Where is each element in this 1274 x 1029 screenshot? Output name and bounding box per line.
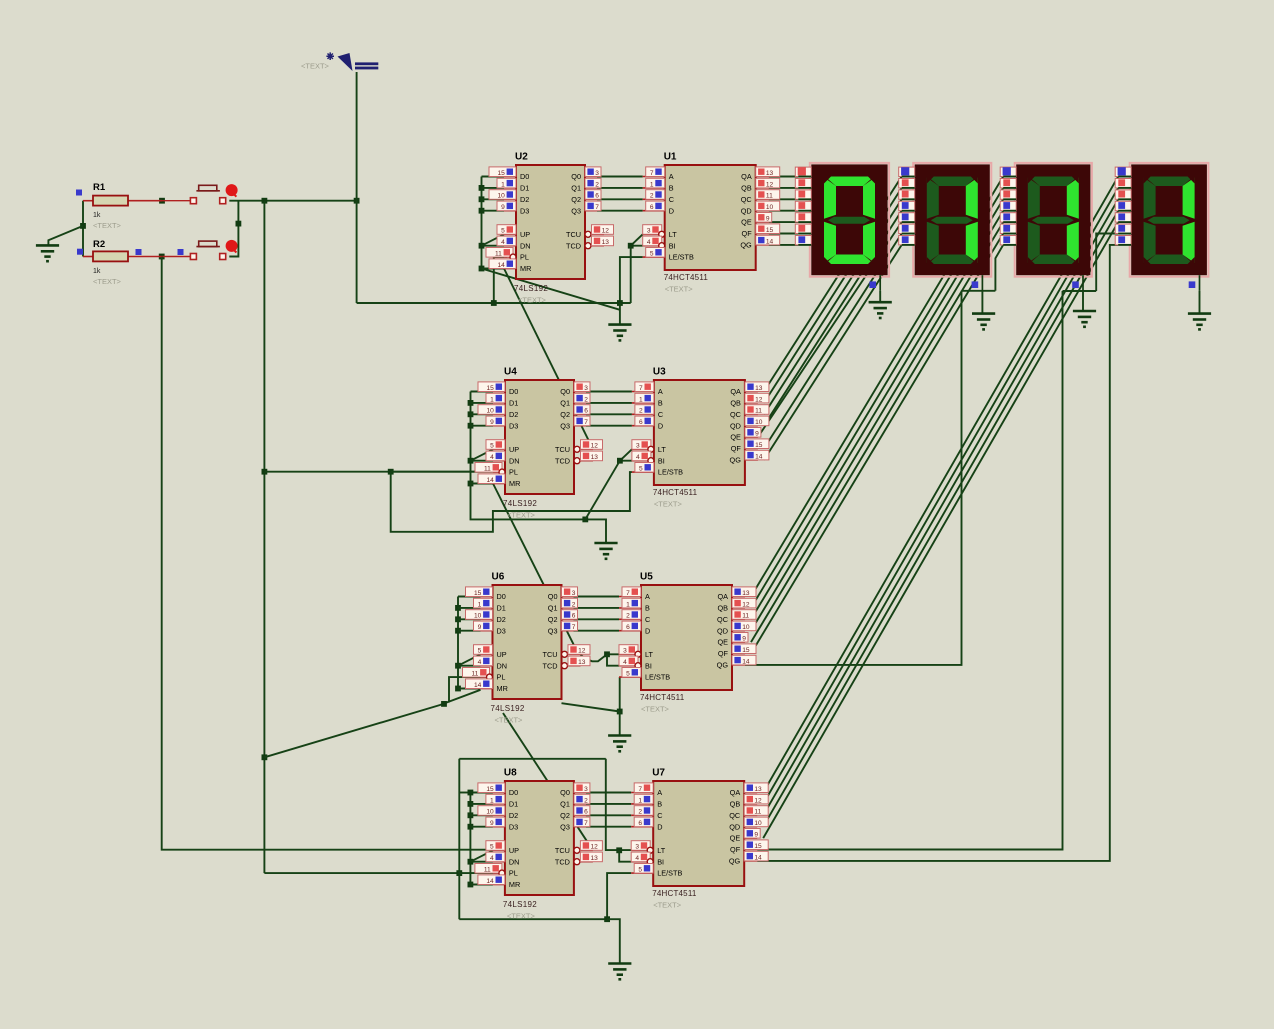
svg-text:PL: PL [520,253,529,262]
wire row1 bus to D1 [482,187,505,189]
junction on R1 row [159,198,165,204]
state square on R2 wire (2) [178,249,184,255]
svg-text:12: 12 [591,844,599,851]
svg-text:4: 4 [623,659,627,666]
wire U6 TCU to U5 LT [581,654,620,661]
ground (row4, bottom) [608,964,631,980]
wire row3 Q0 to decoder input [574,596,620,598]
svg-text:QD: QD [729,822,740,831]
svg-text:9: 9 [755,431,759,438]
svg-text:LT: LT [669,230,678,239]
wire DS2 ground stem [981,291,983,314]
svg-text:Q2: Q2 [560,410,570,419]
ground (under DS3) [1073,311,1096,327]
segment pin d [1000,201,1016,210]
svg-text:12: 12 [602,228,610,235]
wire U5 QG riser to DS2 node [745,291,962,665]
svg-text:4: 4 [478,659,482,666]
wire row1 bus to D3 [482,210,505,212]
svg-text:12: 12 [742,601,750,608]
junction on SW1-SW2 link [236,221,242,227]
svg-text:2: 2 [584,797,588,804]
wire U2 PL to power net [494,257,507,303]
svg-text:QF: QF [742,229,753,238]
wire rail2 (buttons to PL net) vertical [263,201,265,873]
wire row2 bus to D1 [471,402,494,404]
wire U1 LE to power net [620,257,643,303]
wire row2 Q2 to decoder input [586,413,632,415]
svg-text:QE: QE [730,433,741,442]
svg-text:B: B [658,399,663,408]
svg-text:1: 1 [490,797,494,804]
svg-text:A: A [658,387,663,396]
segment pin g [1115,236,1131,245]
svg-text:Q2: Q2 [548,615,558,624]
svg-text:15: 15 [486,385,494,392]
pin TCU (pin number 12) of U8 [574,847,580,853]
svg-text:4: 4 [636,454,640,461]
wire U8 D0 row to loop edge [459,792,470,794]
junction row2 bus D2 [468,411,474,417]
segment pin d [1115,201,1131,210]
junction row2 PL branch [388,469,394,475]
svg-text:13: 13 [755,385,763,392]
segment pin e [1000,213,1016,222]
ground (row1, under U1) [608,325,631,341]
svg-text:QA: QA [730,387,741,396]
pin LT (pin number 3) of U1 [643,233,659,235]
wire rail2 diagonal to U6 MR [264,690,480,758]
junction power net at U2 PL [491,300,497,306]
segment pin a [899,167,915,176]
svg-text:A: A [657,788,662,797]
wire row4 bus to DN pin [470,861,493,863]
wire U1 LT/BI junction [631,234,643,245]
svg-text:LE/STB: LE/STB [669,253,694,262]
svg-text:D0: D0 [520,172,529,181]
svg-text:11: 11 [755,408,762,415]
wire U5 Q1 diagonal to DS3 [751,188,1003,608]
svg-text:5: 5 [490,443,494,450]
pin TCD (pin number 13) of U4 [574,458,580,464]
svg-text:11: 11 [484,466,491,473]
svg-text:MR: MR [509,880,520,889]
segment pin e [1115,213,1131,222]
svg-text:QF: QF [731,444,742,453]
svg-text:TCU: TCU [543,650,558,659]
svg-text:14: 14 [486,477,494,484]
svg-text:6: 6 [650,204,654,211]
svg-text:15: 15 [497,170,505,177]
wire ground stem row1 [619,303,621,325]
wire row4 Q3 to decoder input [586,826,631,828]
wire row3 Q1 to decoder input [574,607,620,609]
cathode pin of 7-segment display DS2 (digit 1) [972,275,983,291]
pin BI (pin number 4) of U1 [643,245,659,247]
svg-text:D1: D1 [520,184,529,193]
pin LT (pin number 3) of U5 [619,653,635,655]
pin UP (pin number 5) of U6 [481,653,493,655]
segment pin b [1115,179,1131,188]
svg-text:MR: MR [509,479,520,488]
pin QG (pin number 14) of U1 [756,244,769,246]
wire DS1 cathode to ground [879,291,881,302]
pin QE (pin number 9) of U5 [732,641,745,643]
svg-text:6: 6 [584,809,588,816]
junction row3 ground node [617,709,623,715]
segment pin d [899,201,915,210]
7-segment display DS4 (digit 1) [1130,163,1209,277]
pin D1 (pin number 1) of U8 [493,803,505,805]
wire row2 Q1 to decoder input [586,402,632,404]
svg-text:74HCT4511: 74HCT4511 [664,273,709,282]
input pins of 7-segment display DS1 (digit 0) [795,167,811,245]
svg-text:D0: D0 [497,592,506,601]
pin QA (pin number 13) of U1 [756,176,769,178]
pin D (pin number 6) of U3 [632,425,654,427]
pin PL (pin number 11) of U4 [493,471,499,473]
BCD decoder U1 (74HCT4511) [643,152,780,283]
wire U5 Q4 diagonal to DS3 [751,222,1003,642]
svg-text:<TEXT>: <TEXT> [653,901,682,910]
svg-text:12: 12 [754,797,762,804]
svg-text:TCU: TCU [555,846,570,855]
segment pin f [899,224,915,233]
pin Q0 (pin number 3) of U6 [562,596,574,598]
pin TCU (pin number 12) of U4 [574,446,580,452]
pin QF (pin number 15) of U1 [756,233,769,235]
resistor R2 [83,239,162,275]
svg-text:12: 12 [578,648,586,655]
wire U1 Q0 to DS1 [769,176,799,178]
junction loop bottom at LE drop [604,916,610,922]
svg-text:TCD: TCD [543,661,558,670]
pin LT (pin number 3) of U3 [632,448,648,450]
svg-text:BI: BI [645,661,652,670]
svg-text:U7: U7 [652,768,665,779]
svg-text:13: 13 [754,786,762,793]
svg-text:D: D [658,421,663,430]
ground (under DS2) [972,314,995,330]
wire U1 Q3 to DS1 [769,210,799,212]
svg-text:LT: LT [658,445,667,454]
svg-text:A: A [669,172,674,181]
wire row1 Q3 to decoder input [597,210,643,212]
pin DN (pin number 4) of U4 [493,460,505,462]
wire U7 Q0 diagonal to DS4 [763,177,1118,793]
wire row2 Q0 to decoder input [586,391,632,393]
svg-text:BI: BI [669,241,676,250]
svg-text:QB: QB [730,399,741,408]
pin B (pin number 1) of U5 [619,607,641,609]
wire U1 Q5 to DS1 [769,233,799,235]
pin D2 (pin number 10) of U8 [493,814,505,816]
pushbutton SW1 (count up) [190,184,237,204]
svg-text:Q0: Q0 [560,387,570,396]
wire row1 Q0 to decoder input [597,176,643,178]
svg-text:15: 15 [766,227,774,234]
pushbutton SW2 (count down) [190,240,237,260]
svg-text:13: 13 [602,239,610,246]
junction U3 BI [617,458,623,464]
pin UP (pin number 5) of U2 [504,233,516,235]
junction row2 bus MR [468,481,474,487]
svg-text:Q1: Q1 [560,800,570,809]
pin QG (pin number 14) of U5 [732,664,745,666]
junction U7 LT node [616,847,622,853]
wire U3 Q1 diagonal to DS2 [764,188,902,403]
wire U3 Q3 diagonal to DS2 [764,211,902,426]
svg-text:12: 12 [766,181,774,188]
pin LT (pin number 3) of U7 [631,849,647,851]
junction row4 bus D2 [468,812,474,818]
7-segment display DS2 (digit 1) [913,163,991,277]
svg-text:LE/STB: LE/STB [657,869,682,878]
wire R2 to button SW2 [162,256,191,258]
svg-text:14: 14 [766,238,774,245]
pin QD (pin number 10) of U5 [732,630,745,632]
svg-text:10: 10 [486,809,494,816]
pin Q1 (pin number 2) of U8 [574,803,586,805]
wire U7 QG riser to DS4 pin g [757,245,1118,861]
svg-text:10: 10 [497,193,505,200]
svg-text:Q2: Q2 [571,195,581,204]
wire U4 bus extension down [471,484,607,544]
pin QC (pin number 11) of U1 [756,198,769,200]
pin D3 (pin number 9) of U6 [481,630,493,632]
svg-text:4: 4 [501,239,505,246]
wire DS2 node to DS3 pin g [995,245,1003,291]
svg-text:11: 11 [766,193,773,200]
counter U2 (74LS192 up/down counter) [486,152,614,294]
pin LE/STB (pin number 5) of U5 [619,676,641,678]
pin Q1 (pin number 2) of U2 [585,187,597,189]
junction row4 bus D1 [468,801,474,807]
segment pin c [1115,190,1131,199]
svg-text:10: 10 [754,820,762,827]
pin Q2 (pin number 6) of U8 [574,814,586,816]
svg-text:U6: U6 [492,572,505,583]
svg-text:1: 1 [490,396,494,403]
svg-text:PL: PL [497,673,506,682]
junction row1 bus MR [479,266,485,272]
svg-text:7: 7 [638,786,642,793]
wire cascade diagonal U4.MR to U6.TCU [493,484,579,655]
svg-text:14: 14 [754,854,762,861]
wire row1 bus to MR pin [482,268,505,270]
svg-text:1: 1 [501,181,505,188]
svg-text:<TEXT>: <TEXT> [507,912,536,921]
wire rail2 bottom to U8 PL row [264,872,459,874]
junction rail2 at row3 branch [262,754,268,760]
input pins of 7-segment display DS3 (digit 1) [1000,167,1016,245]
svg-text:QG: QG [730,456,742,465]
svg-text:QC: QC [717,615,728,624]
pin B (pin number 1) of U7 [631,803,653,805]
wire U6 PL drop to rail2 diagonal [449,677,487,702]
svg-text:DN: DN [497,661,508,670]
svg-text:UP: UP [509,445,519,454]
svg-text:Q0: Q0 [560,788,570,797]
pin D (pin number 6) of U5 [619,630,641,632]
pin QB (pin number 12) of U1 [756,187,769,189]
resistor R1 [83,182,162,219]
svg-text:2: 2 [639,408,643,415]
junction power rail at button row [354,198,360,204]
svg-text:QB: QB [730,800,741,809]
svg-text:13: 13 [591,855,599,862]
input pins of 7-segment display DS4 (digit 1) [1115,167,1131,245]
svg-text:13: 13 [766,170,774,177]
wire U3 Q6 diagonal to DS2 [764,245,902,460]
svg-text:74LS192: 74LS192 [514,284,548,293]
pin Q2 (pin number 6) of U2 [585,198,597,200]
svg-text:3: 3 [636,443,640,450]
pin D2 (pin number 10) of U4 [493,413,505,415]
svg-text:13: 13 [742,590,750,597]
pin UP (pin number 5) of U8 [493,849,505,851]
svg-text:QE: QE [741,218,752,227]
svg-text:1k: 1k [93,212,101,219]
svg-text:B: B [645,604,650,613]
svg-text:D3: D3 [497,626,506,635]
svg-text:DN: DN [509,857,520,866]
svg-text:D2: D2 [520,195,529,204]
wire DS2 cathode node [981,290,983,292]
junction row1 bus D2 [479,196,485,202]
wire U3 Q0 diagonal to DS2 [764,177,902,392]
svg-text:DN: DN [509,456,520,465]
wire row3 Q3 to decoder input [574,630,620,632]
wire SW1 to SW2 link vertical [229,201,238,257]
svg-text:12: 12 [591,443,599,450]
wire row4 Q2 to decoder input [586,814,631,816]
pin QD (pin number 10) of U7 [744,826,757,828]
svg-text:D0: D0 [509,788,518,797]
pin C (pin number 2) of U3 [632,413,654,415]
wire row3 Q2 to decoder input [574,618,620,620]
svg-text:D2: D2 [509,410,518,419]
svg-text:4: 4 [490,454,494,461]
pin TCD (pin number 13) of U6 [562,663,568,669]
segment pin f [1115,224,1131,233]
svg-text:15: 15 [486,786,494,793]
svg-text:3: 3 [647,228,651,235]
wire rail2 to U4 PL [264,471,501,473]
svg-text:D: D [645,626,650,635]
svg-text:Q0: Q0 [571,172,581,181]
svg-text:QE: QE [717,638,728,647]
svg-text:7: 7 [595,204,599,211]
pin MR (pin number 14) of U4 [493,483,505,485]
junction U8 bus top [468,790,474,796]
cathode pin of 7-segment display DS1 (digit 0) [869,275,880,291]
wire row3 bus to D3 [458,630,481,632]
svg-text:TCU: TCU [566,230,581,239]
wire row1 UP diagonal to bus [482,234,505,245]
svg-text:7: 7 [639,385,643,392]
pin UP (pin number 5) of U4 [493,448,505,450]
svg-text:LT: LT [657,846,666,855]
svg-text:MR: MR [520,264,531,273]
svg-text:9: 9 [501,204,505,211]
svg-text:C: C [669,195,674,204]
ground (row2, under U3) [594,543,617,559]
svg-text:11: 11 [495,251,502,258]
wire rail1 (SW-row down left side) [162,257,493,850]
wire row2 bus to DN pin [471,460,494,462]
wire loop bottom to ground stem [607,919,620,963]
wire DS3 cathode horizontal [1063,290,1097,292]
svg-text:UP: UP [520,230,530,239]
pin QB (pin number 12) of U5 [732,607,745,609]
pin QG (pin number 14) of U3 [745,459,758,461]
segment pin f [1000,224,1016,233]
svg-text:10: 10 [766,204,774,211]
svg-text:2: 2 [584,396,588,403]
junction U5 LT node [604,651,610,657]
wire U3 BI diagonal to ground line [585,461,620,520]
pin Q3 (pin number 7) of U6 [562,630,574,632]
wire power rail vertical [356,72,358,303]
pin QA (pin number 13) of U3 [745,391,758,393]
wire row1 bus to D0 [482,176,505,178]
pin BI (pin number 4) of U5 [619,665,635,667]
pin BI (pin number 4) of U3 [632,460,648,462]
pin QE (pin number 9) of U7 [744,837,757,839]
wire U7 LT node down to BI [619,850,631,861]
segment pin b [1000,179,1016,188]
wire U4 PL bubble lead [391,471,501,473]
pin MR (pin number 14) of U8 [493,884,505,886]
DC power source V1 [326,52,378,71]
segment pin g [1000,236,1016,245]
wire U5 Q5 diagonal to DS3 [751,234,1003,654]
svg-text:QC: QC [730,410,741,419]
wire loop left edge (row4) [458,759,460,919]
svg-text:11: 11 [484,867,491,874]
segment pin c [899,190,915,199]
svg-text:D3: D3 [509,421,518,430]
svg-text:3: 3 [572,590,576,597]
wire row2 counter input bus [470,392,472,484]
svg-text:Q3: Q3 [548,626,558,635]
pin Q2 (pin number 6) of U6 [562,618,574,620]
svg-text:10: 10 [755,419,763,426]
pin TCU (pin number 12) of U2 [585,231,591,237]
svg-text:PL: PL [509,869,518,878]
svg-text:<TEXT>: <TEXT> [301,62,330,71]
svg-text:D3: D3 [520,206,529,215]
svg-text:QE: QE [730,834,741,843]
svg-text:7: 7 [584,820,588,827]
segment pin f [795,224,811,233]
svg-text:D1: D1 [497,604,506,613]
svg-text:TCU: TCU [555,445,570,454]
svg-text:D: D [669,206,674,215]
svg-text:QG: QG [729,857,741,866]
pin B (pin number 1) of U3 [632,402,654,404]
pin DN (pin number 4) of U8 [493,861,505,863]
pin QD (pin number 10) of U1 [756,210,769,212]
pin D3 (pin number 9) of U4 [493,425,505,427]
svg-text:5: 5 [626,671,630,678]
svg-text:Q2: Q2 [560,811,570,820]
BCD decoder U5 (74HCT4511) [619,572,756,703]
junction on R2 row [159,254,165,260]
svg-text:9: 9 [766,216,770,223]
ground (left of R1/R2) [36,245,59,261]
